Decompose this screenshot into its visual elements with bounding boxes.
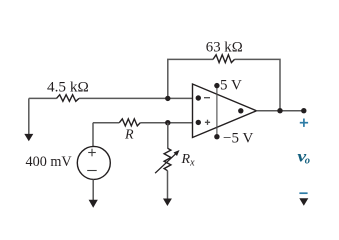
resistor 4.5k xyxy=(57,95,80,102)
resistor R xyxy=(119,119,140,126)
output minus (blue) xyxy=(299,192,307,194)
ground (left branch) xyxy=(24,134,33,141)
svg-text:4.5 kΩ: 4.5 kΩ xyxy=(47,79,89,95)
wire: noninverting input rail xyxy=(93,122,193,124)
node: output terminal xyxy=(301,108,306,113)
node: noninverting junction xyxy=(165,120,170,125)
op-amp -5V dot xyxy=(214,134,219,139)
wire: Rx branch top xyxy=(167,123,169,149)
op-amp output dot xyxy=(238,108,243,113)
op-amp plus sign xyxy=(205,120,210,125)
op-amp input dot minus xyxy=(196,95,201,100)
wire: feedback loop xyxy=(168,59,280,110)
resistor Rx (variable) xyxy=(164,148,171,171)
wire: left ground drop xyxy=(28,98,30,134)
svg-text:400 mV: 400 mV xyxy=(26,154,72,170)
wire: source stem bottom xyxy=(92,180,94,201)
node: feedback/output junction xyxy=(277,108,282,113)
svg-text:R: R xyxy=(124,127,134,142)
node: inverting junction xyxy=(165,96,170,101)
svg-text:−5 V: −5 V xyxy=(223,131,253,147)
ground under source xyxy=(89,200,98,208)
resistor 63k xyxy=(213,55,235,63)
op-amp power line xyxy=(216,86,218,137)
ground under Rx xyxy=(163,199,172,207)
op-amp minus sign xyxy=(204,97,210,99)
wire: inverting input rail xyxy=(29,97,193,99)
op-amp xyxy=(193,84,257,138)
op-amp input dot plus xyxy=(196,120,201,125)
wire: output rail xyxy=(257,110,304,112)
op-amp 5V dot xyxy=(214,83,219,88)
ground at output xyxy=(299,198,308,205)
svg-text:63 kΩ: 63 kΩ xyxy=(206,40,243,56)
source plus xyxy=(88,149,96,157)
voltage source 400 mV xyxy=(77,146,110,179)
wire: Rx branch bottom xyxy=(167,171,169,199)
wire: source stem top xyxy=(92,123,94,147)
source minus xyxy=(87,170,97,172)
svg-text:5 V: 5 V xyxy=(220,78,242,94)
output plus (blue) xyxy=(300,119,308,127)
arrow of Rx xyxy=(155,154,175,173)
svg-text:o: o xyxy=(305,155,310,166)
